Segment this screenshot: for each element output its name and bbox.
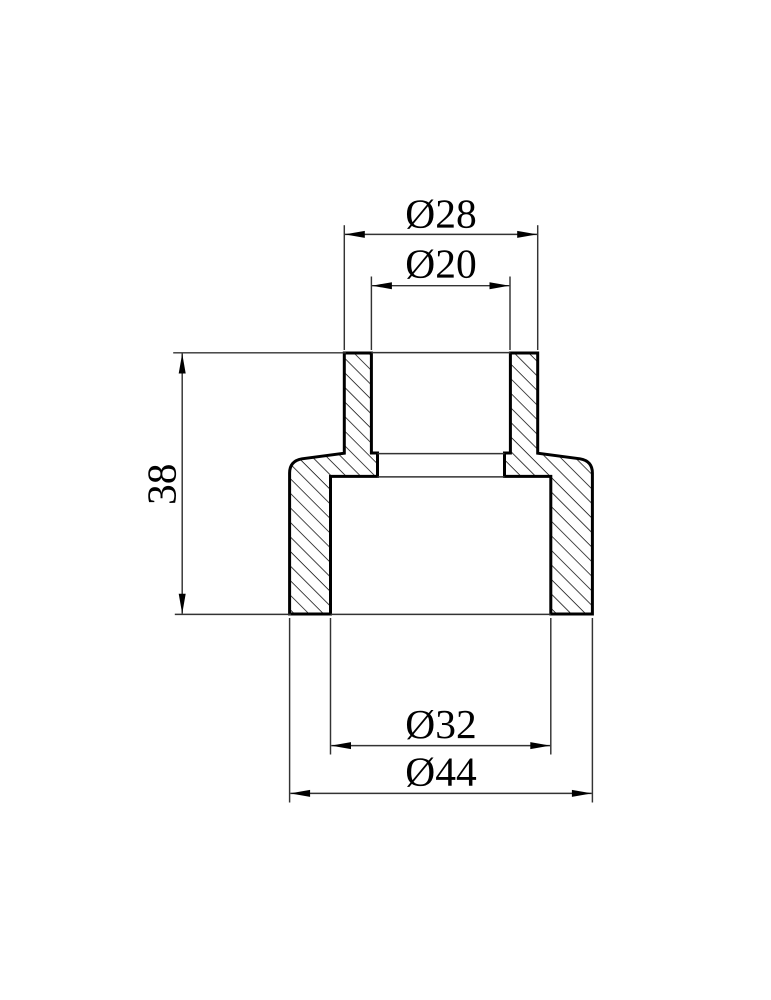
dimension line (290, 792, 592, 794)
bottom rim line across bore (331, 613, 551, 615)
svg-text:Ø44: Ø44 (405, 749, 477, 795)
arrow right (517, 231, 537, 238)
dimension line (181, 353, 183, 613)
dimension 38 (139, 353, 347, 615)
arrow left (331, 742, 351, 749)
svg-text:38: 38 (139, 464, 185, 506)
dimension line (345, 233, 537, 235)
top rim line across bore (371, 352, 510, 354)
arrow up (179, 354, 186, 374)
extension line right (537, 225, 539, 350)
ridge rim line (378, 453, 505, 455)
dimension line (331, 745, 550, 747)
dimension Ø20 (371, 241, 510, 350)
dimension Ø32 (331, 618, 551, 755)
socket ledge rim line (378, 476, 505, 478)
extension line right (550, 618, 552, 755)
extension line top (173, 352, 346, 354)
extension line right (509, 277, 511, 351)
extension line left (289, 618, 291, 803)
svg-text:Ø28: Ø28 (405, 190, 476, 236)
svg-text:Ø32: Ø32 (405, 701, 476, 747)
dimension Ø28 (344, 190, 537, 350)
extension line bottom (175, 613, 291, 615)
svg-text:Ø20: Ø20 (405, 241, 476, 287)
section body right (hatched) (505, 353, 593, 614)
section body left (hatched) (290, 353, 378, 614)
dimension Ø44 (290, 618, 593, 803)
arrow right (572, 790, 592, 797)
extension line left (330, 618, 332, 755)
extension line left (370, 277, 372, 351)
arrow left (290, 790, 310, 797)
arrow right (530, 742, 550, 749)
arrow left (345, 231, 365, 238)
extension line right (591, 618, 593, 803)
arrow left (372, 282, 392, 289)
dimension line (372, 285, 509, 287)
arrow right (490, 282, 510, 289)
arrow down (179, 594, 186, 614)
extension line left (343, 225, 345, 350)
